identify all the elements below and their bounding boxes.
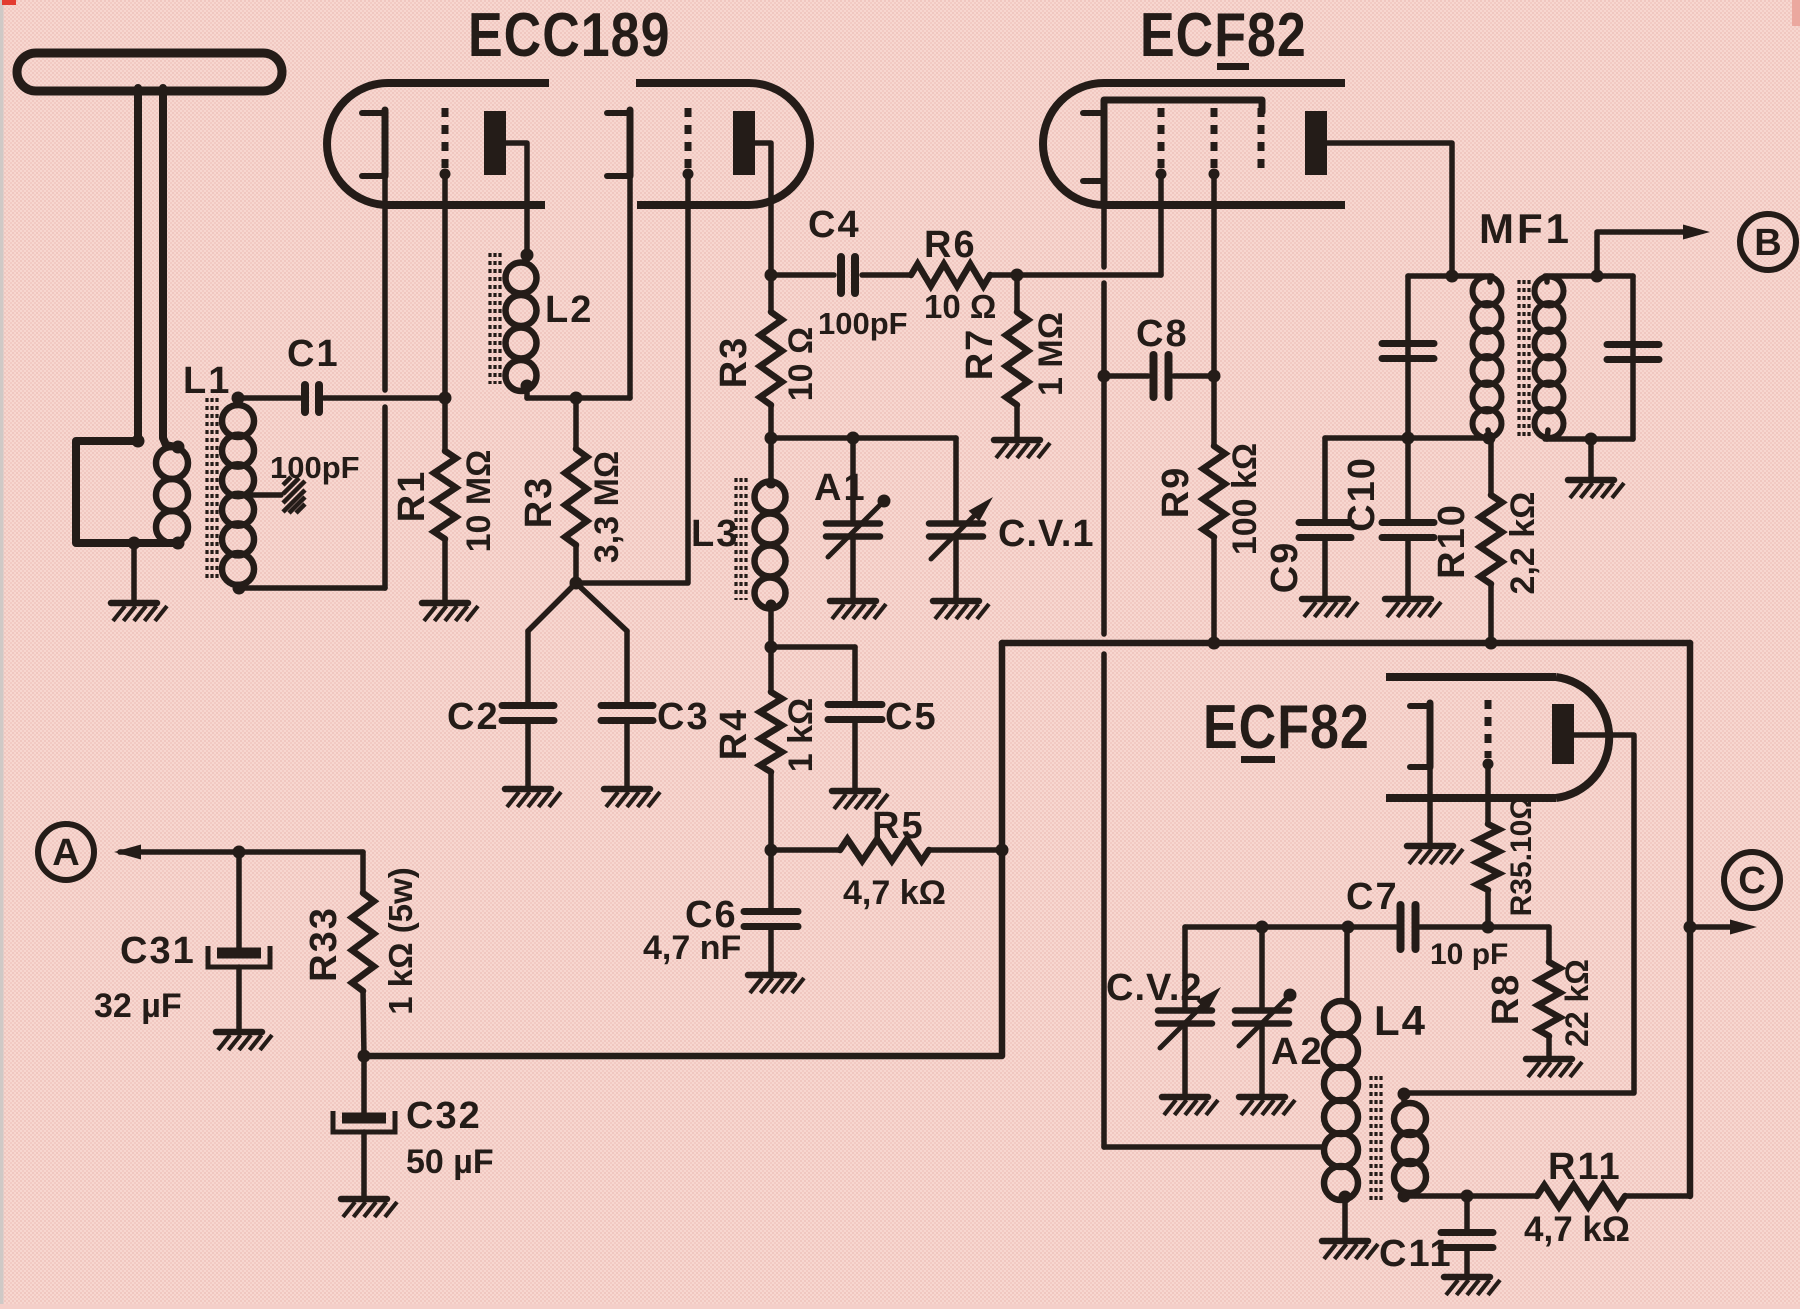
svg-text:C11: C11 [1379, 1233, 1453, 1275]
capacitor C11 [1464, 1196, 1470, 1230]
svg-text:R11: R11 [1548, 1146, 1622, 1188]
ECF82 osc anode [1552, 704, 1574, 764]
ground [422, 603, 478, 621]
node L3 bottom [765, 641, 778, 654]
junction R3 top [570, 392, 583, 405]
core of L2 [488, 253, 491, 384]
tube ECF82 envelope [1043, 83, 1345, 205]
junction R9 / bus [1208, 637, 1221, 650]
junction L2 bottom [521, 380, 534, 393]
ground [1568, 480, 1624, 498]
wire antenna right downlead to L1 top [163, 88, 176, 447]
wire L4 secondary bottom [1404, 1193, 1537, 1199]
chassis connection [283, 477, 305, 513]
ground [505, 789, 561, 807]
svg-text:C8: C8 [1136, 313, 1189, 355]
svg-text:R9: R9 [1155, 466, 1197, 519]
tube ECF82 osc envelope [1386, 677, 1609, 798]
svg-text:100pF: 100pF [270, 450, 360, 485]
svg-text:4,7 kΩ: 4,7 kΩ [1524, 1210, 1630, 1249]
svg-text:C.V.1: C.V.1 [998, 513, 1095, 555]
svg-text:1 MΩ: 1 MΩ [1032, 312, 1070, 396]
svg-text:C31: C31 [120, 930, 196, 972]
ECF82 anode [1305, 111, 1327, 175]
svg-text:C4: C4 [808, 204, 861, 246]
wire osc cathode to ground [1427, 767, 1433, 843]
svg-text:C9: C9 [1264, 541, 1306, 594]
junction R4 bottom / R5 / C6 [765, 844, 778, 857]
inductor MF1 secondary [1544, 276, 1550, 282]
wire feed bus [1002, 640, 1690, 647]
junction B takeoff [1591, 270, 1604, 283]
core of L3 [734, 478, 737, 600]
wire cathode1 lead (crosses C1 wire) [382, 176, 388, 390]
capacitor C3 [624, 631, 630, 702]
svg-text:A: A [52, 832, 79, 874]
wire L1 secondary bottom to cathode lead [239, 585, 385, 588]
wire right edge (bus to R11) [1687, 643, 1694, 1196]
junction R33 / C32 / rail [358, 1050, 371, 1063]
inductor L4 primary [1344, 927, 1350, 1002]
svg-text:ECF82: ECF82 [1203, 693, 1370, 763]
inductor L1 secondary [222, 405, 254, 437]
wire MF1 primary bottom rail [1325, 435, 1491, 441]
junction C takeoff [1684, 921, 1697, 934]
wire oscillator grid line / C7 [1185, 924, 1396, 930]
ground [748, 975, 804, 993]
wire MF1 secondary bottom rail [1545, 436, 1633, 442]
wire MF1 primary top rail [1408, 273, 1492, 279]
capacitor MF1 secondary tuning [1607, 341, 1659, 348]
svg-text:4,7 kΩ: 4,7 kΩ [843, 874, 946, 912]
wire to A1 and CV1 [771, 435, 956, 441]
resistor R10 [1488, 438, 1494, 495]
terminal C [1724, 852, 1780, 908]
svg-text:C1: C1 [287, 333, 340, 375]
svg-text:L2: L2 [545, 289, 593, 331]
ECF82 cathode and g3 bar [1104, 100, 1262, 205]
svg-text:C7: C7 [1346, 876, 1399, 918]
ground [1239, 1097, 1295, 1115]
ECC189 triode 2 grid [685, 108, 692, 168]
resistor R6 [911, 264, 990, 286]
capacitor MF1 primary tuning [1382, 340, 1434, 347]
wire to terminal C [1690, 924, 1745, 930]
terminal B [1740, 214, 1796, 270]
ECF82 osc grid [1485, 700, 1492, 758]
wire anode1 to L2 [506, 143, 527, 255]
wire MF1 secondary top rail [1545, 273, 1633, 279]
svg-text:C32: C32 [406, 1095, 482, 1137]
ECF82 grid g2 [1211, 108, 1218, 168]
svg-text:1 kΩ: 1 kΩ [782, 698, 820, 773]
junction C11 [1461, 1190, 1474, 1203]
svg-text:R5: R5 [872, 805, 925, 847]
junction antenna downlead [132, 435, 145, 448]
wire L1 center tap [252, 492, 281, 498]
junction MF1 secondary ground tap [1585, 433, 1598, 446]
junction R3 bottom / grid2 / C2 C3 [570, 577, 583, 590]
ground [1407, 846, 1463, 864]
ECC189 triode 2 anode [733, 111, 755, 175]
core of L4 [1369, 1076, 1372, 1200]
ground [216, 1032, 272, 1050]
svg-text:4,7 nF: 4,7 nF [643, 929, 741, 967]
resistor R5 [771, 847, 840, 853]
ground [1302, 599, 1358, 617]
capacitor C1 [238, 395, 300, 401]
ECF82 osc cathode [1410, 703, 1430, 767]
capacitor C31 (electrolytic) [236, 852, 242, 952]
svg-text:32 µF: 32 µF [94, 987, 182, 1025]
junction A2 [1256, 921, 1269, 934]
svg-text:R7: R7 [959, 328, 1001, 381]
svg-text:ECC189: ECC189 [468, 1, 671, 71]
junction L2 top [521, 249, 534, 262]
wire cathode2 lead [627, 176, 633, 398]
capacitor C7 [1397, 905, 1405, 949]
ground [1162, 1097, 1218, 1115]
core of MF1 [1517, 280, 1520, 437]
ground [604, 789, 660, 807]
svg-text:C3: C3 [657, 696, 710, 738]
wire L2/R3/cathode2 node [527, 395, 630, 401]
svg-text:C2: C2 [447, 696, 500, 738]
capacitor C2 [525, 631, 531, 702]
junction L1 primary bottom [172, 537, 185, 550]
node grid1 / R1 top [439, 392, 452, 405]
svg-text:A1: A1 [814, 467, 867, 509]
svg-text:50 µF: 50 µF [406, 1143, 494, 1181]
capacitor C32 (electrolytic) [361, 1056, 367, 1117]
wire to ground [131, 543, 137, 600]
capacitor C6 [768, 850, 774, 909]
variable capacitor C.V.1 [953, 438, 959, 521]
wire to terminal A [120, 849, 363, 855]
junction L1 secondary top [232, 392, 245, 405]
resistor R11 [1537, 1185, 1625, 1207]
svg-text:R33: R33 [303, 906, 345, 982]
svg-text:L1: L1 [183, 360, 231, 402]
ECC189 triode 1 cathode [362, 110, 385, 176]
junction L4 primary bottom [1339, 1191, 1352, 1204]
svg-text:MF1: MF1 [1479, 205, 1572, 252]
junction A1 branch [847, 432, 860, 445]
ground [832, 791, 888, 809]
svg-text:R6: R6 [924, 224, 977, 266]
ground [341, 1199, 397, 1217]
svg-text:10 Ω: 10 Ω [782, 327, 820, 402]
resistor R35 [1485, 764, 1491, 824]
terminal A [38, 824, 94, 880]
svg-text:B: B [1754, 222, 1781, 264]
wire feed rail left drop to C32 node [364, 643, 1002, 1056]
junction R3 bottom / L3 top / A1 CV1 [765, 432, 778, 445]
svg-text:10 pF: 10 pF [1430, 938, 1508, 971]
ground [830, 601, 886, 619]
svg-text:R35.10Ω: R35.10Ω [1505, 796, 1538, 917]
ground [933, 601, 989, 619]
wire antenna left downlead to L1 bottom [76, 88, 178, 543]
junction L4 secondary top [1398, 1088, 1411, 1101]
junction MF1 feed [1446, 270, 1459, 283]
capacitor C9 [1322, 438, 1328, 520]
ground [1526, 1059, 1582, 1077]
tube ECC189 envelope [327, 83, 810, 205]
junction C10 [1402, 432, 1415, 445]
wire osc anode to L4 secondary [1406, 735, 1634, 1093]
junction R10 / bus [1485, 637, 1498, 650]
ground [994, 440, 1050, 458]
junction R5 / rail [996, 844, 1009, 857]
ground [111, 603, 167, 621]
arrowhead to A [114, 845, 141, 860]
junction L4 primary top [1342, 921, 1355, 934]
ECF82 grid g3 [1258, 108, 1265, 168]
trimmer capacitor A1 [850, 438, 856, 521]
wire L4 tap from mixer cathode [1104, 1144, 1324, 1150]
svg-text:1 kΩ (5w): 1 kΩ (5w) [382, 867, 419, 1015]
wire mixer anode to MF1 [1327, 143, 1452, 274]
junction L1 secondary bottom [233, 582, 246, 595]
junction L4 secondary bottom [1398, 1190, 1411, 1203]
resistor R9 [1203, 446, 1225, 537]
ground [1322, 1241, 1378, 1259]
core of L1 [205, 398, 208, 582]
capacitor C10 [1405, 438, 1411, 520]
svg-text:3,3 MΩ: 3,3 MΩ [588, 451, 626, 563]
junction C31 [233, 846, 246, 859]
antenna (folded dipole) [17, 53, 282, 91]
capacitor C5 [771, 644, 855, 650]
ground [1385, 599, 1441, 617]
svg-text:C10: C10 [1341, 456, 1383, 532]
svg-text:R1: R1 [391, 470, 433, 523]
junction C8 right [1208, 370, 1221, 383]
wire MF1 primary left leg [1405, 276, 1411, 438]
wire MF1 secondary right leg [1630, 276, 1636, 439]
resistor R4 [768, 647, 774, 692]
ECC189 triode 1 anode [484, 111, 506, 175]
wire mixer cathode lead down (crosses wires) [1101, 205, 1107, 267]
svg-text:100 kΩ: 100 kΩ [1226, 443, 1264, 555]
variable capacitor C.V.2 [1182, 927, 1188, 1007]
junction L1 primary top [172, 441, 185, 454]
svg-text:100pF: 100pF [818, 306, 908, 341]
svg-text:R3: R3 [518, 476, 560, 529]
svg-text:A2: A2 [1271, 1031, 1324, 1073]
svg-text:R10: R10 [1431, 503, 1473, 579]
wire grid2 lead [578, 174, 688, 583]
svg-text:2,2 kΩ: 2,2 kΩ [1504, 492, 1542, 595]
wire anode2 down [755, 143, 771, 275]
inductor L3 [768, 438, 774, 484]
junction L1 primary bottom / ground [128, 537, 141, 550]
svg-text:ECF82: ECF82 [1140, 1, 1307, 71]
resistor R3 3.3M [573, 398, 579, 449]
ECF82 grid g1 [1158, 108, 1165, 168]
svg-text:22 kΩ: 22 kΩ [1559, 959, 1595, 1047]
junction R7 top [1011, 269, 1024, 282]
junction anode2 / C4 [765, 269, 778, 282]
svg-text:C.V.2: C.V.2 [1106, 967, 1203, 1009]
capacitor C4 [771, 272, 834, 278]
inductor L1 primary [156, 447, 188, 479]
inductor MF1 primary [1487, 276, 1493, 282]
wire to terminal B [1597, 232, 1698, 276]
ground [1444, 1277, 1500, 1295]
svg-text:L4: L4 [1374, 997, 1427, 1044]
svg-text:10 MΩ: 10 MΩ [460, 450, 498, 553]
svg-text:C: C [1738, 860, 1765, 902]
resistor R33 [360, 852, 366, 893]
junction R10 top [1483, 432, 1496, 445]
resistor R1 [442, 398, 448, 451]
svg-text:L3: L3 [691, 513, 739, 555]
wire fork to C2 C3 [528, 583, 627, 631]
svg-text:C5: C5 [885, 696, 938, 738]
svg-text:R4: R4 [713, 708, 755, 761]
ECC189 triode 2 cathode [607, 110, 630, 176]
junction R35 / C7 [1482, 921, 1495, 934]
svg-text:R8: R8 [1485, 973, 1527, 1026]
junction C8 left [1098, 370, 1111, 383]
trimmer capacitor A2 [1259, 927, 1265, 1007]
svg-text:R3: R3 [713, 336, 755, 389]
resistor R8 [1546, 927, 1552, 962]
ECC189 triode 1 grid [442, 108, 449, 168]
svg-text:10 Ω: 10 Ω [924, 288, 996, 325]
